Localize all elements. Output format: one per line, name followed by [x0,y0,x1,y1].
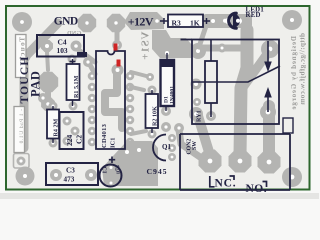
node C3 pad 1 [50,169,62,181]
node R3 right pad [208,16,218,26]
wire relay band B [240,30,247,155]
node GND pad [12,12,32,32]
resistor R4 [47,106,60,143]
wire +12V pour [124,12,164,30]
svg-text:NO.: NO. [246,183,268,195]
resistor R3 [160,15,210,28]
label +12V [128,15,154,29]
node relay pad bottom-left [189,107,203,121]
wire LED to relay [244,27,250,40]
node D1 bottom pad [161,106,171,116]
node LED pad 2 [236,18,242,24]
svg-text:R3: R3 [172,18,181,27]
wire relay band C [263,106,275,156]
svg-text:1K: 1K [190,18,200,27]
wire touch column [21,60,28,148]
label GND [54,16,78,28]
wire relay diag [244,54,267,86]
label C945 [147,167,168,176]
pin 1 red marks [114,44,121,67]
label PAD [29,70,43,97]
svg-text:C1: C1 [103,167,109,174]
node LED pad 1 [225,18,231,24]
svg-text:C2: C2 [75,135,84,144]
node R2 top pad [148,86,157,95]
node R3 left pad [153,17,162,26]
svg-text:- 1 Pad U1.0: - 1 Pad U1.0 [19,109,25,144]
node top octagon pad B [107,14,125,32]
wire relay band A [198,116,209,152]
label copper GND ghost [67,30,82,37]
label copper 0.1U box [14,107,25,153]
node C2 pad 3 [63,137,72,146]
wire pad B to IC [115,27,120,44]
wire pour bridge [152,30,173,50]
node touch octagon small [41,97,55,111]
svg-text:Designed by George: Designed by George [290,36,298,110]
svg-text:SW: SW [192,141,198,150]
node R4 bottom pad [49,139,58,148]
node C4 pad 2 [71,41,82,52]
capacitor C2 [60,112,84,149]
capacitor C1 [100,157,122,187]
node R1 top pad [68,55,77,64]
resistor R1 [67,59,81,106]
capacitor C4 [37,35,87,57]
transistor Q1 [153,135,171,161]
label NC [210,176,237,190]
svg-text:GND: GND [54,16,78,28]
node C1 pad 2 [107,179,115,187]
diode D1 1N4001 [161,53,176,111]
node big pad top-right [282,10,302,30]
node relay pad coil-left [190,43,206,59]
node R2 bottom pad [148,130,157,139]
LED LED1 [223,13,240,28]
node relay coil pad [206,111,216,121]
node IC1 left pads [88,72,97,147]
wire octagon stub [47,52,48,70]
node IC pin1 pad [112,40,122,50]
wire octagon link [45,82,51,104]
wire R3-LED band [203,14,252,28]
node touch square pad [14,154,30,169]
wire pour at D1 [152,38,192,58]
node relay pad small [193,98,201,106]
svg-text:VS1+: VS1+ [140,32,152,61]
wire relay top trace [200,45,241,52]
resistor R2 [146,90,159,133]
wire NC arrow [264,41,272,72]
relay RY1 outline [181,40,280,125]
node C4 pad 1 [41,40,53,52]
node Q1 pads [168,134,176,161]
node R4 top pad [49,102,58,111]
svg-text:103: 103 [57,46,68,55]
svg-text:RY1: RY1 [197,110,203,122]
svg-text:1N4001: 1N4001 [170,86,176,104]
node pads below relay [161,122,184,133]
wire relay common [192,66,280,82]
svg-text:RED: RED [246,12,261,19]
node C2 pad 2 [71,127,80,136]
label copper Touch box [16,35,27,78]
svg-text:PAD: PAD [29,70,43,97]
label copper author [290,36,298,110]
label copper url [299,33,307,105]
node R1 bottom pad [69,102,78,111]
node pad below C4 [83,57,93,67]
wire pad to band [199,23,207,47]
svg-text:dttp:\\gc.gfbjf.w.com: dttp:\\gc.gfbjf.w.com [299,33,307,105]
svg-text:224: 224 [65,135,74,147]
node CON2 pad NC [229,150,252,173]
wire dogbone 1 [131,72,154,81]
svg-text:C945: C945 [147,167,168,176]
node top octagon pad A [78,14,96,32]
wire Q1 to CON2 [179,130,200,157]
svg-text:R1 5.1M: R1 5.1M [74,75,80,98]
wire C4 to IC [76,48,95,74]
label TOUCH [19,56,31,104]
wire dogbone 3 [131,131,146,134]
wire inside IC1 [105,72,122,128]
wire NO arrow [264,87,272,112]
node bottom-right pad [282,167,302,187]
svg-text:R2 10K: R2 10K [153,106,159,126]
relay coil [205,40,217,118]
wire gnd trace [24,23,58,148]
svg-text:Q1: Q1 [162,143,171,151]
svg-text:IC1: IC1 [110,138,117,148]
svg-text:+12V: +12V [128,15,154,29]
op-amp U1 IC1 CD4013 outline [96,51,125,149]
svg-text:C4: C4 [58,38,67,47]
node C1 pad 1 [107,164,115,172]
node pad right of D1 [191,79,202,90]
svg-text:NC.: NC. [215,178,237,190]
label RY1 [197,110,203,122]
node relay pad NO [260,104,276,120]
label CON2 SW [187,139,199,155]
svg-text:47u: 47u [116,165,122,175]
node bottom-left pad [16,167,35,186]
connector CON2 outline [180,134,290,190]
node relay via [218,44,227,53]
node C2 pad 1 [63,117,72,126]
label NO [246,182,268,196]
label copper VS1+ [140,32,152,61]
node CON2 pad COM [199,150,222,173]
node C3 pad 2 [85,169,97,181]
svg-text:473: 473 [64,176,75,184]
svg-text:CD4013: CD4013 [101,123,108,148]
connector CON2 top edge [180,133,290,135]
node touch octagon big [38,72,58,92]
node CON2 pad NO [258,151,281,174]
capacitor C3 [46,163,98,185]
node small box right [283,118,293,133]
node pad left of C2 [38,93,48,103]
wire dogbone 2 [131,87,144,90]
wire bottom pour [102,141,158,186]
svg-text:C3: C3 [66,166,75,174]
node IC1 right pads [126,72,135,147]
label LED1 RED [246,7,265,20]
node relay pad top-right [261,40,279,58]
node via mid of IC [112,64,124,76]
